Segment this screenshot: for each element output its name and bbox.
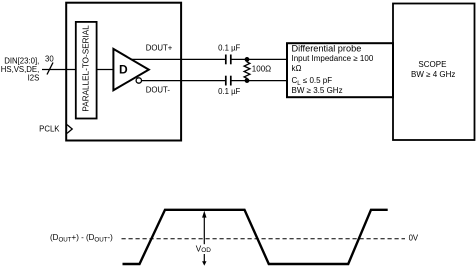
node B junction dot xyxy=(245,78,250,83)
svg-text:BW ≥ 4 GHz: BW ≥ 4 GHz xyxy=(411,70,455,79)
svg-text:BW ≥ 3.5 GHz: BW ≥ 3.5 GHz xyxy=(292,86,343,95)
svg-text:I2S: I2S xyxy=(28,73,40,82)
svg-text:Input Impedance ≥ 100: Input Impedance ≥ 100 xyxy=(292,54,374,63)
svg-text:PARALLEL-TO-SERIAL: PARALLEL-TO-SERIAL xyxy=(82,25,91,112)
bus slash marker xyxy=(47,63,53,75)
resistor R1 100 ohm xyxy=(244,59,250,80)
svg-text:0.1 µF: 0.1 µF xyxy=(218,87,240,96)
differential probe box xyxy=(287,43,393,97)
wire DOUT+ xyxy=(130,58,226,60)
svg-text:kΩ: kΩ xyxy=(292,64,302,73)
capacitor C1 0.1 uF (top) xyxy=(226,55,231,65)
VOD measurement arrow xyxy=(203,217,205,262)
svg-text:100Ω: 100Ω xyxy=(252,64,271,73)
scope box xyxy=(393,4,475,141)
inversion bubble on DOUT- xyxy=(136,78,141,83)
serializer chip box xyxy=(66,3,181,141)
svg-text:Differential probe: Differential probe xyxy=(292,44,362,54)
input labels DIN[23:0], HS,VS,DE, I2S xyxy=(1,57,40,83)
svg-text:DOUT+: DOUT+ xyxy=(146,44,173,53)
wire serializer to buffer xyxy=(97,69,114,71)
0V dashed reference line xyxy=(122,238,406,240)
buffer U1 (D driver) xyxy=(113,49,148,90)
clock input chevron xyxy=(67,125,72,134)
parallel-to-serial block xyxy=(76,22,97,119)
wire C1 to node A xyxy=(231,58,287,60)
wire DOUT- xyxy=(141,80,226,82)
svg-text:PCLK: PCLK xyxy=(39,125,60,134)
svg-text:DOUT-: DOUT- xyxy=(146,86,171,95)
svg-text:30: 30 xyxy=(45,54,54,63)
capacitor C2 0.1 uF (bottom) xyxy=(226,76,231,86)
node A junction dot xyxy=(245,57,250,62)
svg-text:0V: 0V xyxy=(409,234,419,243)
wire input bus xyxy=(42,69,76,71)
svg-text:VOD: VOD xyxy=(196,245,211,254)
svg-text:D: D xyxy=(119,62,128,76)
waveform trace xyxy=(123,210,388,264)
svg-text:SCOPE: SCOPE xyxy=(418,60,446,69)
wire C2 to node B xyxy=(231,80,287,82)
svg-text:0.1 µF: 0.1 µF xyxy=(218,43,240,52)
